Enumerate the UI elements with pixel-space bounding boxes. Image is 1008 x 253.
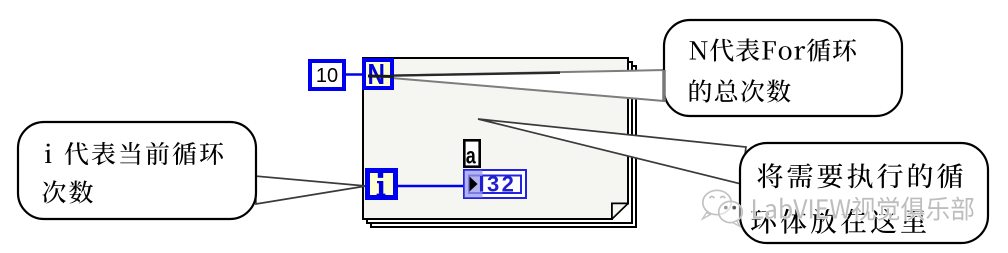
text: 将需要执行的循 <box>757 163 962 188</box>
free label "a" <box>464 140 479 166</box>
text: 次数 <box>43 180 93 203</box>
I32 indicator terminal <box>464 170 526 198</box>
text: 环体放在这里 <box>751 209 926 234</box>
watermark text: LabVIEW视觉俱乐部 <box>753 197 974 221</box>
watermark WeChat logo (small bubble) <box>719 201 743 222</box>
N terminal (loop count) <box>364 60 392 88</box>
svg-text:I32: I32 <box>479 172 517 197</box>
numeric constant 10 <box>310 61 344 89</box>
text: N代表For循环 <box>690 38 856 61</box>
I32 indicator arrow <box>470 177 478 192</box>
text: 的总次数 <box>690 79 791 102</box>
callout tail of bubble "N代表For循环" (points to N terminal) <box>368 70 664 101</box>
wire: constant 10 to N terminal <box>344 73 364 76</box>
for-loop back frame (3rd page of stack) <box>371 66 636 227</box>
callout tail of bubble "将需要执行的循环体放在这里" (points inside loop) <box>478 119 746 184</box>
callout tail of bubble "i 代表当前循环次数" (points to i terminal) <box>255 176 366 204</box>
svg-text:a: a <box>466 143 476 169</box>
text: i 代表当前循环 <box>45 142 223 165</box>
for-loop front frame (For Loop border) <box>363 58 628 219</box>
svg-text:10: 10 <box>316 65 338 87</box>
tail apex stub over N terminal <box>368 75 394 79</box>
speech bubble: N 代表 For 循环的总次数 <box>664 20 902 116</box>
wire: i terminal to I32 indicator <box>398 185 464 188</box>
watermark WeChat logo (big bubble) <box>703 190 743 226</box>
for-loop middle frame (2nd page of stack) <box>367 62 632 223</box>
speech bubble: 将需要执行的循环体放在这里 <box>740 143 988 243</box>
speech bubble: i 代表当前循环次数 <box>18 122 256 219</box>
i terminal (iteration count) <box>368 171 396 198</box>
for-loop folded corner (dog-ear) <box>612 204 628 220</box>
